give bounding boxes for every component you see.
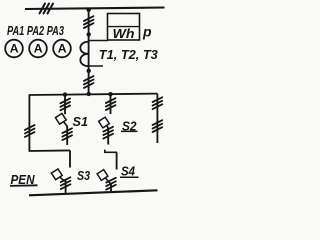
svg-text:T1, T2, T3: T1, T2, T3	[99, 48, 158, 62]
svg-text:p: p	[142, 24, 152, 40]
svg-text:A: A	[58, 42, 67, 56]
svg-text:S4: S4	[121, 163, 136, 178]
svg-text:S3: S3	[77, 168, 91, 183]
svg-text:Wh: Wh	[113, 26, 135, 41]
svg-text:A: A	[34, 42, 43, 56]
svg-text:S1: S1	[73, 114, 89, 129]
svg-text:PA1 PA2 PA3: PA1 PA2 PA3	[7, 23, 65, 38]
svg-text:A: A	[10, 42, 19, 56]
